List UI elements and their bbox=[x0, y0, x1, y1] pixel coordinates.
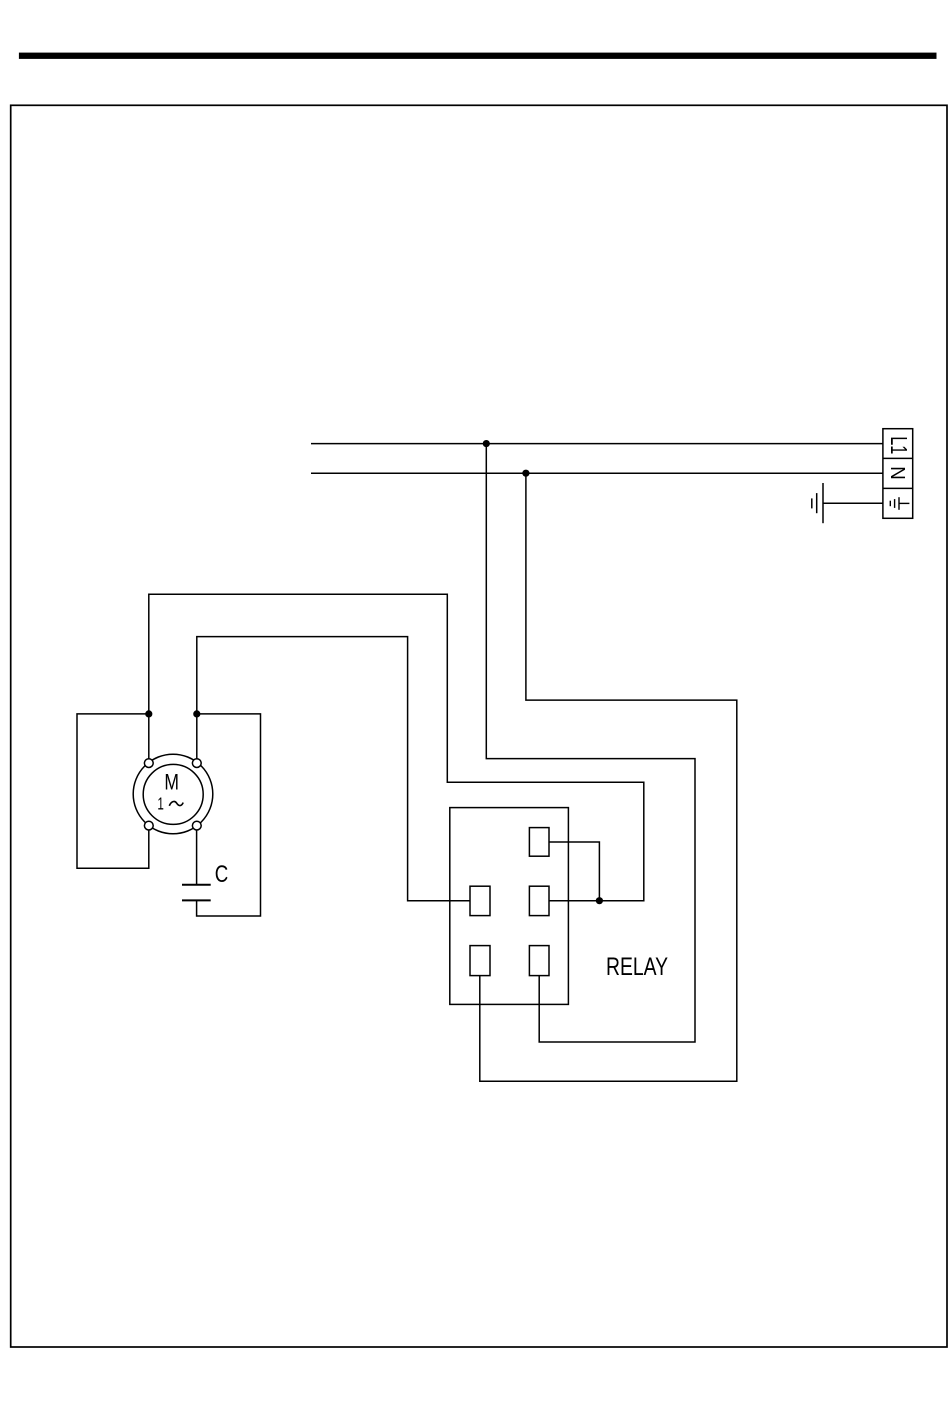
junction dot B on N line bbox=[522, 470, 529, 477]
motor M1 body circle bbox=[143, 764, 203, 824]
relay terminal top bbox=[529, 828, 549, 857]
capacitor C bottom plate bbox=[182, 899, 211, 901]
junction dot A on L1 line bbox=[483, 440, 490, 447]
wire dot2 to motor top-right terminal bbox=[196, 714, 198, 759]
junction dot 1 (motor top-left feed) bbox=[145, 710, 152, 717]
svg-text:L1: L1 bbox=[886, 436, 912, 454]
wire from relay top terminal to junction on mid wire bbox=[549, 842, 599, 901]
junction dot 2 (motor top-right feed) bbox=[193, 710, 200, 717]
junction dot at relay mid wire bbox=[596, 897, 603, 904]
relay terminal mid-left bbox=[470, 886, 490, 915]
svg-text:C: C bbox=[215, 861, 229, 888]
motor terminal top-left bbox=[144, 759, 153, 768]
svg-text:M: M bbox=[164, 769, 179, 794]
relay box bbox=[450, 808, 569, 1005]
motor terminal top-right bbox=[192, 759, 201, 768]
relay terminal bottom-right bbox=[529, 946, 549, 976]
wire right loop dot2 to capacitor bottom bbox=[197, 714, 261, 916]
wire N supply line bbox=[311, 472, 883, 474]
motor label tilde bbox=[169, 801, 183, 805]
svg-text:RELAY: RELAY bbox=[606, 954, 668, 981]
wire from dot A to relay bottom-right terminal bbox=[486, 444, 695, 1042]
ground symbol bbox=[812, 483, 823, 523]
capacitor C top plate bbox=[182, 884, 211, 886]
wire from dot B to relay bottom-left terminal bbox=[480, 473, 737, 1081]
motor terminal bottom-right bbox=[192, 821, 201, 830]
wire motor bottom-right terminal to capacitor top bbox=[196, 830, 198, 885]
svg-text:N: N bbox=[886, 466, 909, 480]
relay terminal mid-right bbox=[529, 886, 549, 915]
motor M1 outer ring bbox=[133, 754, 213, 834]
wire L1 supply line bbox=[311, 443, 883, 445]
terminal label earth glyph bbox=[890, 497, 909, 510]
relay terminal bottom-left bbox=[470, 946, 490, 976]
wire earth bbox=[823, 502, 883, 504]
terminal block X1 bbox=[883, 429, 913, 519]
motor terminal bottom-left bbox=[144, 821, 153, 830]
wire dot1 to motor top-left terminal bbox=[148, 714, 150, 759]
wire left loop dot1 to motor bottom-left terminal bbox=[77, 714, 149, 868]
svg-text:1: 1 bbox=[157, 794, 164, 814]
wire from L1 corner run to relay mid-right terminal bbox=[149, 594, 644, 900]
wire from N corner run to relay mid-left terminal bbox=[197, 637, 470, 901]
